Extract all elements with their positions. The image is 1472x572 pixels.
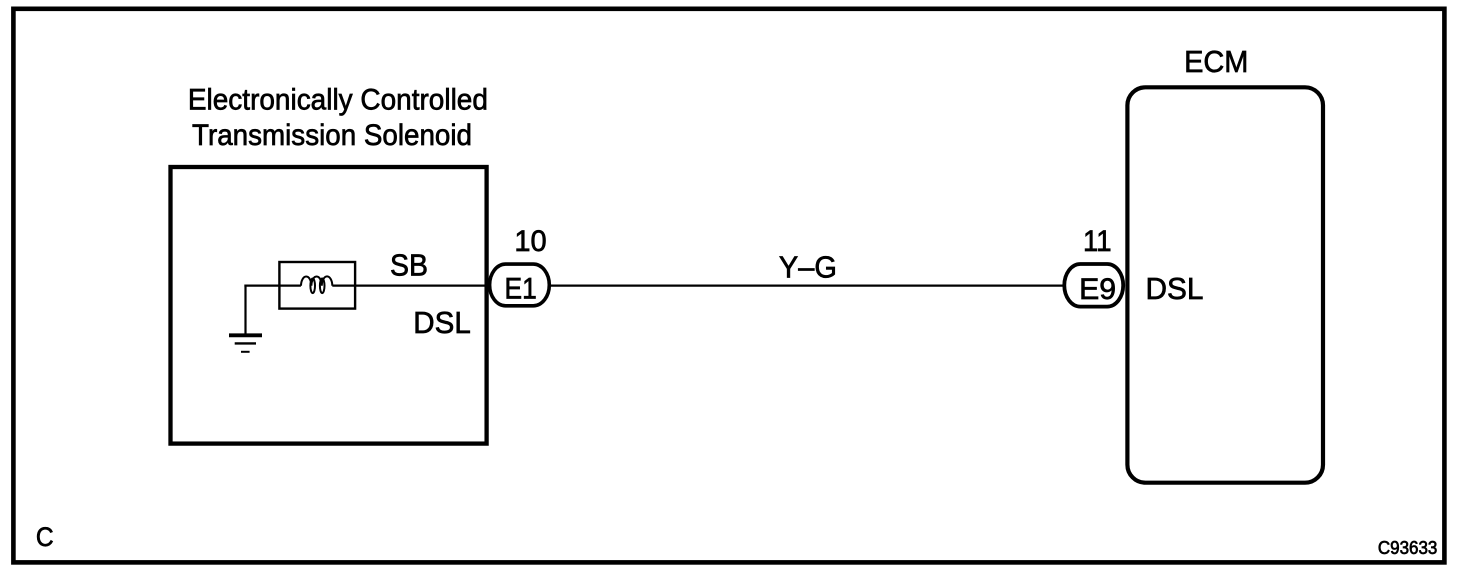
svg-text:DSL: DSL bbox=[1146, 271, 1204, 306]
svg-text:ECM: ECM bbox=[1184, 44, 1248, 79]
svg-text:C93633: C93633 bbox=[1378, 538, 1438, 558]
svg-text:11: 11 bbox=[1083, 225, 1112, 258]
svg-text:C: C bbox=[36, 522, 54, 552]
svg-text:SB: SB bbox=[390, 248, 428, 283]
svg-text:E9: E9 bbox=[1079, 273, 1116, 306]
svg-text:Y–G: Y–G bbox=[779, 250, 837, 285]
svg-text:E1: E1 bbox=[505, 273, 537, 306]
svg-text:DSL: DSL bbox=[413, 305, 471, 340]
svg-text:10: 10 bbox=[514, 225, 546, 258]
svg-text:Electronically Controlled: Electronically Controlled bbox=[188, 83, 488, 116]
svg-text:Transmission Solenoid: Transmission Solenoid bbox=[192, 119, 472, 152]
